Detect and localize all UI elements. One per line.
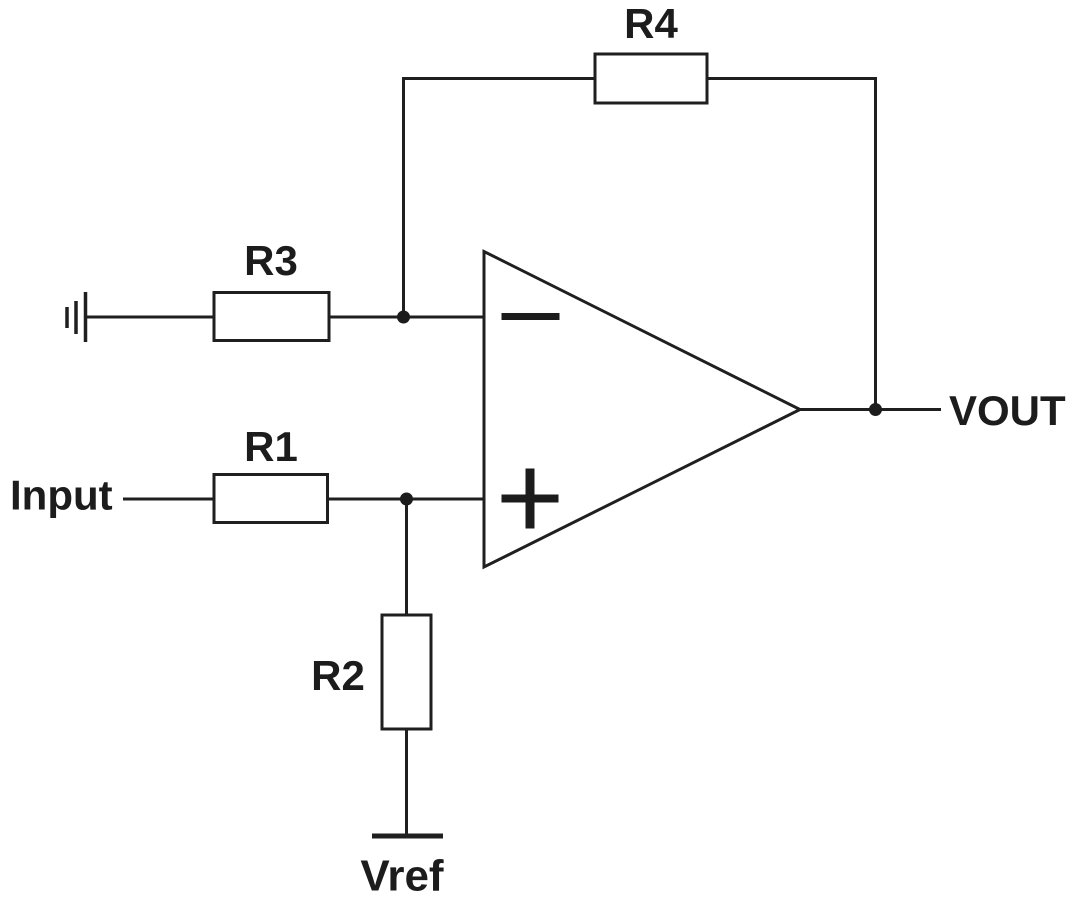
op-amp U1 bbox=[484, 252, 800, 568]
wire feedback right vertical bbox=[874, 77, 877, 411]
wire feedback top-right segment bbox=[707, 77, 876, 80]
ground bbox=[67, 292, 86, 342]
wire node to R2 bbox=[405, 499, 408, 615]
Vref terminal bar bbox=[372, 834, 443, 839]
node non-inverting input junction bbox=[400, 493, 413, 506]
svg-text:Input: Input bbox=[10, 472, 113, 519]
svg-text:R2: R2 bbox=[311, 652, 365, 699]
wire feedback top-left segment bbox=[404, 77, 596, 80]
resistor R2 bbox=[382, 615, 431, 729]
svg-text:R1: R1 bbox=[244, 423, 298, 470]
op-amp non-inverting input marker bbox=[502, 469, 559, 529]
wire feedback left vertical bbox=[402, 77, 405, 317]
svg-text:R3: R3 bbox=[244, 237, 298, 284]
svg-text:R4: R4 bbox=[624, 0, 678, 47]
resistor R4 bbox=[595, 54, 707, 103]
node output junction bbox=[869, 403, 882, 416]
svg-text:Vref: Vref bbox=[360, 852, 444, 901]
resistor R1 bbox=[214, 475, 328, 523]
node inverting input junction bbox=[397, 311, 410, 324]
wire R3 to inverting input bbox=[329, 316, 484, 319]
wire output to VOUT bbox=[800, 408, 941, 411]
op-amp inverting input marker bbox=[502, 313, 560, 320]
wire ground to R3 bbox=[86, 316, 214, 319]
wire Input to R1 bbox=[123, 498, 214, 501]
svg-text:VOUT: VOUT bbox=[949, 387, 1066, 434]
resistor R3 bbox=[214, 293, 329, 341]
wire R2 to Vref bbox=[405, 729, 408, 836]
wire R1 to non-inverting input bbox=[328, 498, 485, 501]
